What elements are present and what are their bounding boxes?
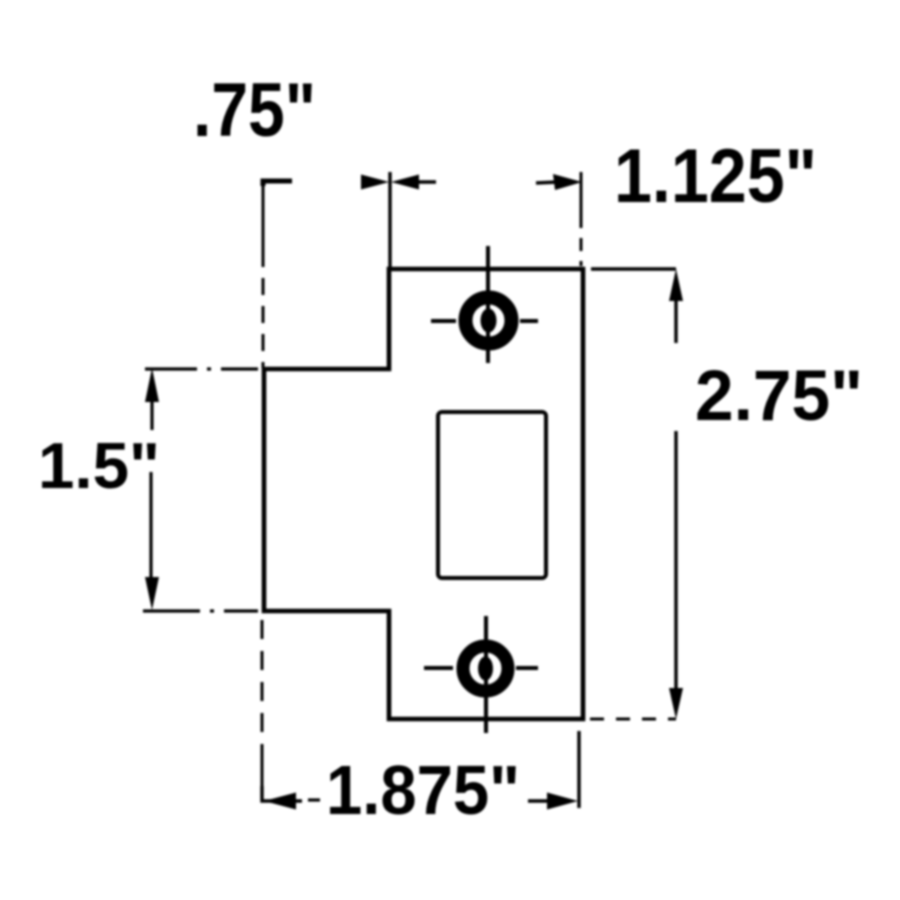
dim 2.75in: down arrow	[669, 688, 683, 719]
svg-text:2.75": 2.75"	[695, 357, 863, 436]
screw hole top: ring	[466, 298, 512, 344]
dim 1.5in: bottom extension dash-dot	[143, 609, 258, 612]
svg-text:.75": .75"	[193, 68, 316, 153]
dim 1.875in: small dash after left arrow	[308, 798, 320, 801]
screw hole top: center dot	[481, 309, 497, 333]
dim .75in: left corner hook	[263, 181, 292, 186]
screw hole top: crosshair vertical	[486, 246, 490, 363]
screw hole bottom: center dot	[478, 657, 493, 681]
dim 1.875in: right extension bracket	[577, 731, 580, 808]
screw hole top: crosshair horizontal right tick	[520, 319, 538, 323]
latch bolt cutout	[438, 412, 546, 578]
dim .75in: right arrow pointing right	[361, 175, 389, 190]
dim 1.125in: left arrow pointing left with tail	[391, 175, 419, 190]
dim 1.875in: right arrow pointing right with tail	[528, 799, 552, 802]
extension line at plate upper-right corner (dashed)	[580, 172, 583, 215]
svg-text:1.5": 1.5"	[38, 429, 160, 502]
svg-text:1.875": 1.875"	[326, 751, 520, 829]
extension line at plate upper-left corner	[388, 172, 391, 268]
dim 1.5in: up arrow	[145, 368, 159, 402]
dim 1.5in: down arrow	[145, 577, 159, 610]
dim 2.75in: up arrow	[669, 269, 683, 301]
dim 2.75in: lower segment	[674, 431, 677, 694]
screw hole bottom: crosshair horizontal left tick	[424, 666, 453, 670]
screw hole top: crosshair horizontal left tick	[431, 319, 456, 323]
dim 1.125in: right arrow pointing right with tail	[536, 182, 558, 183]
screw hole bottom: crosshair vertical	[484, 616, 488, 733]
strike plate outline	[264, 269, 583, 719]
svg-text:1.125": 1.125"	[614, 134, 817, 219]
screw hole bottom: ring	[463, 646, 508, 691]
screw hole bottom: crosshair horizontal right tick	[516, 666, 538, 670]
dim 1.875in: left corner and arrow pointing left	[262, 786, 302, 801]
dim 2.75in: bottom extension dashed	[590, 718, 676, 721]
dim 2.75in: top extension from plate corner	[591, 267, 676, 270]
dim 1.875in: left extension dashed below tab	[261, 620, 264, 745]
dim .75in: left extension line dashed down to tab corner	[262, 184, 265, 250]
dim 1.5in: top extension dash-dot	[145, 367, 258, 370]
dim 1.5in: lower segment	[149, 472, 152, 582]
